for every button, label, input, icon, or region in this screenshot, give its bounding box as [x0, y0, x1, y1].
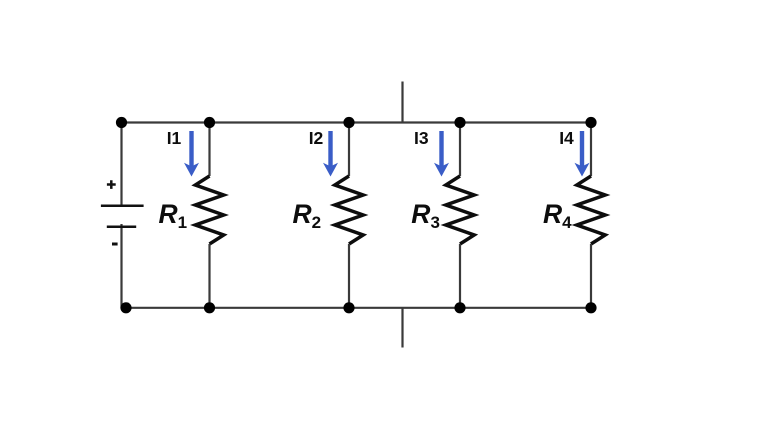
wire battery branch lower: [120, 224, 122, 308]
node R3 bottom: [454, 302, 465, 313]
node R2 top: [343, 117, 354, 128]
resistor R1: [195, 123, 223, 308]
battery V1: [101, 180, 144, 244]
node R1 top: [204, 117, 215, 128]
node top-left: [116, 117, 127, 128]
node R2 bottom: [343, 302, 354, 313]
wire top bus: [122, 121, 592, 123]
resistor R4: [577, 123, 605, 308]
current arrow I1: [184, 131, 199, 177]
resistor R3: [446, 123, 474, 308]
current arrow I2: [323, 131, 338, 177]
node R3 top: [454, 117, 465, 128]
wire battery branch upper: [120, 123, 122, 205]
node bottom-left: [120, 302, 131, 313]
wire top stub: [401, 82, 403, 123]
wire bottom stub: [401, 308, 403, 348]
current arrow I4: [575, 131, 590, 177]
node R4 top: [585, 117, 596, 128]
node R1 bottom: [204, 302, 215, 313]
svg-text:I3: I3: [414, 128, 429, 148]
svg-text:I1: I1: [167, 128, 182, 148]
svg-text:I2: I2: [309, 128, 324, 148]
wire bottom bus: [122, 307, 592, 309]
svg-text:I4: I4: [559, 128, 574, 148]
resistor R2: [335, 123, 363, 308]
current arrow I3: [434, 131, 449, 177]
node R4 bottom: [585, 302, 596, 313]
